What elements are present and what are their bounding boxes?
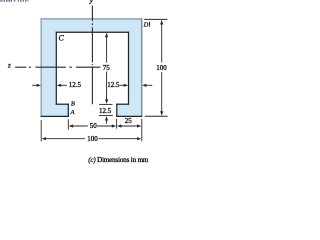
svg-text:A: A: [70, 109, 75, 116]
svg-text:100: 100: [87, 135, 98, 143]
svg-text:12.5: 12.5: [69, 81, 82, 89]
dimension 100 right side: [161, 23, 163, 62]
lip dimension ticks: [99, 103, 112, 105]
extension line below right outer edge: [141, 119, 143, 142]
dimension 75 (inner height) line: [106, 34, 108, 103]
75 down arrowhead: [105, 99, 108, 104]
extension line below left lip tip: [67, 119, 69, 130]
inner left edge: [55, 32, 57, 104]
left lip tip: [67, 104, 69, 116]
z axis (dash-dot centerline): [15, 66, 100, 68]
svg-text:z: z: [7, 61, 11, 69]
top extension line right: [144, 18, 167, 20]
dimension 50 line: [72, 125, 88, 127]
outer outline: top edge: [41, 18, 143, 20]
left web 12.5 dimension: [32, 84, 37, 86]
svg-text:50: 50: [90, 122, 98, 130]
svg-text:75: 75: [103, 64, 111, 72]
lip up arrow below: [106, 118, 108, 124]
extension line below right lip tip: [116, 119, 118, 129]
tick after D: [149, 22, 151, 27]
outer outline: right edge: [141, 18, 143, 116]
svg-text:(c) Dimensions in mm: (c) Dimensions in mm: [88, 156, 149, 164]
bottom edge left lip: [41, 115, 68, 117]
y axis (dash-dot centerline): [91, 6, 93, 105]
svg-text:12.5: 12.5: [99, 107, 112, 115]
inner top edge: [56, 31, 128, 33]
bottom extension line right: [145, 115, 168, 117]
svg-text:12.5: 12.5: [107, 81, 120, 89]
svg-text:C: C: [59, 34, 65, 43]
outer outline: left edge: [40, 18, 42, 116]
svg-text:D: D: [143, 21, 149, 28]
svg-text:100: 100: [156, 64, 167, 72]
left lip top: [56, 103, 68, 105]
channel cross-section fill: [41, 19, 142, 117]
bottom edge right lip: [117, 115, 142, 117]
dimension 25: [120, 125, 138, 127]
inner right edge: [128, 32, 130, 104]
svg-text:25: 25: [125, 117, 133, 125]
extension line below left outer edge: [40, 120, 42, 141]
right lip top: [117, 103, 129, 105]
svg-text:B: B: [71, 101, 75, 108]
right lip tip: [116, 104, 118, 116]
75 up arrowhead: [105, 33, 108, 38]
dimension 100 bottom: [45, 138, 85, 140]
cut-off text fragments top-left: [0, 0, 28, 2]
dark edges: bottom + cavity: [41, 32, 142, 116]
